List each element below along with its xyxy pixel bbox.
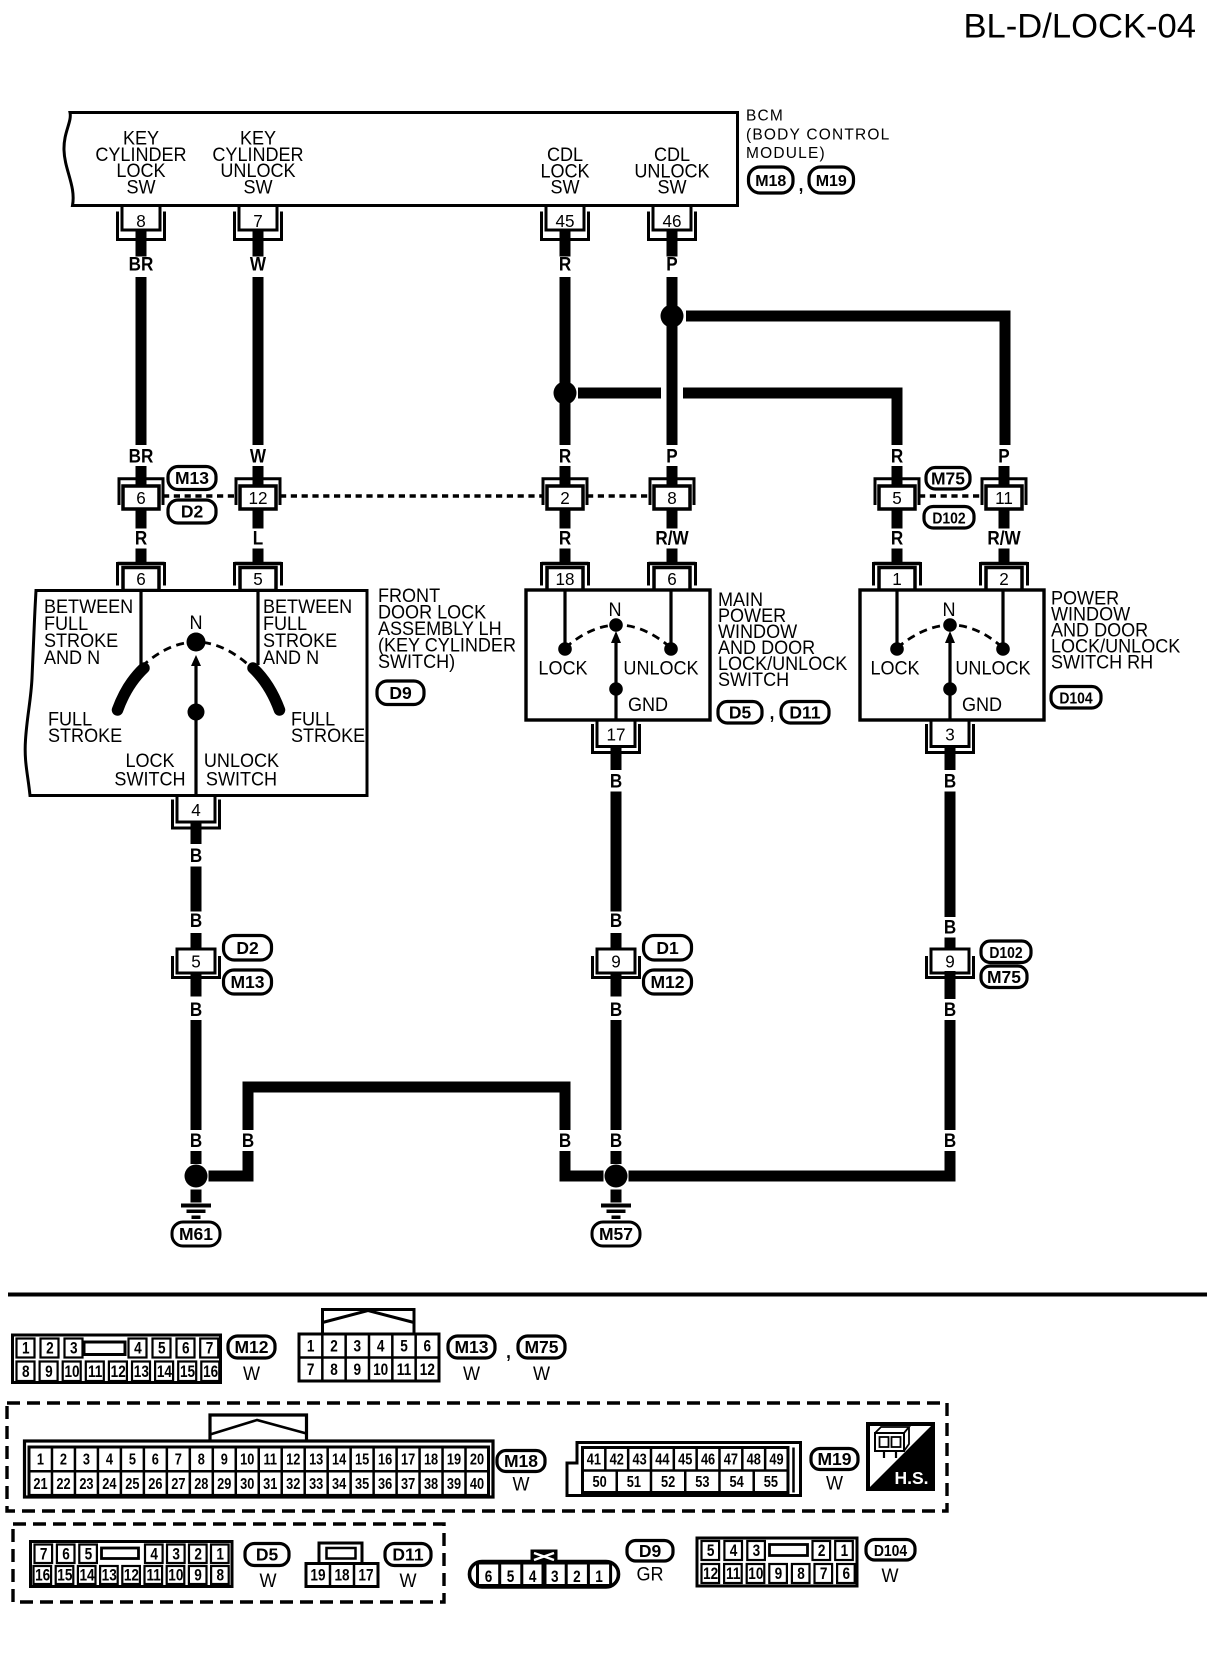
svg-text:W: W [250, 446, 267, 467]
svg-text:13: 13 [309, 1451, 323, 1469]
svg-text:5: 5 [707, 1542, 715, 1561]
svg-text:B: B [944, 999, 956, 1020]
svg-text:M13: M13 [230, 972, 264, 992]
svg-text:4: 4 [191, 800, 201, 821]
svg-text:9: 9 [611, 951, 621, 972]
svg-text:5: 5 [191, 951, 201, 972]
svg-text:D2: D2 [181, 502, 204, 522]
svg-text:32: 32 [286, 1476, 300, 1494]
svg-text:13: 13 [134, 1362, 149, 1381]
svg-text:7: 7 [253, 211, 263, 232]
svg-text:6: 6 [136, 569, 146, 590]
svg-text:51: 51 [627, 1474, 641, 1492]
svg-text:W: W [259, 1570, 277, 1592]
svg-text:20: 20 [470, 1451, 484, 1469]
svg-text:M12: M12 [234, 1337, 268, 1357]
svg-text:6: 6 [667, 569, 677, 590]
svg-text:M75: M75 [931, 468, 965, 488]
svg-text:1: 1 [307, 1337, 315, 1356]
svg-text:SWITCH RH: SWITCH RH [1051, 651, 1153, 673]
svg-text:14: 14 [332, 1451, 346, 1469]
svg-text:2: 2 [330, 1337, 338, 1356]
svg-text:10: 10 [748, 1565, 763, 1584]
svg-text:B: B [190, 910, 202, 931]
svg-text:UNLOCK: UNLOCK [623, 657, 699, 679]
svg-text:D102: D102 [932, 511, 965, 528]
svg-text:B: B [242, 1130, 254, 1151]
svg-text:16: 16 [378, 1451, 392, 1469]
svg-text:B: B [559, 1130, 571, 1151]
svg-text:B: B [190, 999, 202, 1020]
svg-text:38: 38 [424, 1476, 438, 1494]
svg-text:B: B [190, 845, 202, 866]
svg-text:15: 15 [57, 1566, 73, 1585]
svg-text:SWITCH: SWITCH [206, 768, 277, 790]
svg-text:GR: GR [636, 1563, 663, 1585]
svg-text:15: 15 [180, 1362, 196, 1381]
svg-text:54: 54 [729, 1474, 743, 1492]
svg-text:53: 53 [695, 1474, 709, 1492]
svg-text:BCM: BCM [746, 108, 784, 125]
svg-text:12: 12 [248, 488, 267, 509]
svg-text:11: 11 [88, 1362, 103, 1381]
svg-text:4: 4 [150, 1545, 158, 1564]
svg-text:6: 6 [485, 1568, 493, 1587]
svg-text:2: 2 [194, 1545, 202, 1564]
svg-text:B: B [944, 771, 956, 792]
svg-text:M19: M19 [817, 1449, 851, 1469]
svg-text:7: 7 [307, 1360, 315, 1379]
svg-text:R: R [559, 446, 571, 467]
svg-text:30: 30 [240, 1476, 254, 1494]
svg-text:P: P [666, 446, 677, 467]
svg-text:H.S.: H.S. [894, 1468, 928, 1488]
svg-text:B: B [610, 999, 622, 1020]
svg-text:10: 10 [240, 1451, 254, 1469]
svg-text:3: 3 [753, 1542, 761, 1561]
svg-text:12: 12 [703, 1565, 718, 1584]
svg-text:R: R [891, 528, 903, 549]
svg-text:STROKE: STROKE [48, 725, 122, 747]
svg-text:W: W [463, 1363, 481, 1385]
svg-text:N: N [942, 599, 955, 621]
svg-text:2: 2 [999, 569, 1009, 590]
svg-text:SWITCH: SWITCH [114, 768, 185, 790]
svg-text:D5: D5 [729, 702, 752, 722]
svg-text:33: 33 [309, 1476, 323, 1494]
svg-text:3: 3 [945, 724, 955, 745]
svg-text:8: 8 [136, 211, 146, 232]
svg-text:4: 4 [134, 1339, 142, 1358]
svg-text:D2: D2 [236, 938, 259, 958]
svg-text:45: 45 [555, 211, 574, 232]
svg-text:AND N: AND N [263, 647, 319, 669]
svg-text:,: , [506, 1341, 511, 1362]
svg-text:P: P [666, 254, 677, 275]
svg-text:5: 5 [85, 1545, 93, 1564]
svg-text:29: 29 [217, 1476, 231, 1494]
svg-text:SW: SW [550, 176, 580, 198]
svg-text:SW: SW [243, 176, 273, 198]
svg-text:17: 17 [401, 1451, 415, 1469]
svg-text:M18: M18 [755, 173, 786, 190]
svg-text:5: 5 [400, 1337, 408, 1356]
svg-text:15: 15 [355, 1451, 369, 1469]
svg-text:18: 18 [334, 1566, 350, 1585]
svg-text:B: B [944, 917, 956, 938]
svg-text:50: 50 [593, 1474, 607, 1492]
svg-text:6: 6 [182, 1339, 190, 1358]
svg-text:19: 19 [310, 1566, 325, 1585]
svg-text:8: 8 [797, 1565, 805, 1584]
svg-text:55: 55 [764, 1474, 778, 1492]
svg-text:MODULE): MODULE) [746, 145, 826, 162]
svg-text:9: 9 [945, 951, 955, 972]
svg-text:22: 22 [56, 1476, 70, 1494]
svg-text:5: 5 [253, 569, 263, 590]
svg-text:D104: D104 [1059, 691, 1093, 708]
svg-text:48: 48 [747, 1451, 761, 1469]
svg-text:2: 2 [560, 488, 570, 509]
svg-text:18: 18 [555, 569, 574, 590]
svg-text:R: R [891, 446, 903, 467]
svg-text:3: 3 [551, 1568, 559, 1587]
svg-text:W: W [243, 1363, 261, 1385]
svg-text:R: R [559, 254, 571, 275]
svg-text:7: 7 [175, 1451, 182, 1469]
svg-text:4: 4 [106, 1451, 113, 1469]
svg-text:5: 5 [129, 1451, 136, 1469]
svg-text:2: 2 [60, 1451, 67, 1469]
svg-text:D5: D5 [256, 1545, 279, 1565]
svg-text:14: 14 [157, 1362, 173, 1381]
svg-text:8: 8 [330, 1360, 338, 1379]
svg-text:3: 3 [70, 1339, 78, 1358]
svg-text:28: 28 [194, 1476, 208, 1494]
svg-text:8: 8 [216, 1566, 224, 1585]
svg-text:12: 12 [286, 1451, 300, 1469]
svg-text:9: 9 [354, 1360, 362, 1379]
svg-text:4: 4 [730, 1542, 738, 1561]
svg-text:B: B [190, 1130, 202, 1151]
svg-text:R/W: R/W [655, 528, 689, 549]
svg-text:STROKE: STROKE [291, 725, 365, 747]
svg-text:9: 9 [221, 1451, 228, 1469]
svg-text:D9: D9 [639, 1541, 662, 1561]
svg-text:10: 10 [64, 1362, 79, 1381]
svg-text:GND: GND [628, 694, 668, 716]
svg-text:M75: M75 [524, 1337, 558, 1357]
svg-text:GND: GND [962, 694, 1002, 716]
svg-text:M13: M13 [175, 468, 209, 488]
svg-text:1: 1 [37, 1451, 44, 1469]
svg-text:19: 19 [447, 1451, 461, 1469]
svg-text:3: 3 [172, 1545, 180, 1564]
svg-text:13: 13 [102, 1566, 117, 1585]
svg-text:SWITCH: SWITCH [718, 669, 789, 691]
svg-text:49: 49 [769, 1451, 783, 1469]
svg-text:SWITCH): SWITCH) [378, 651, 455, 673]
svg-text:31: 31 [263, 1476, 277, 1494]
svg-text:46: 46 [701, 1451, 715, 1469]
svg-text:D11: D11 [789, 702, 820, 722]
svg-text:M12: M12 [650, 972, 684, 992]
svg-text:46: 46 [662, 211, 681, 232]
svg-text:8: 8 [667, 488, 677, 509]
svg-text:26: 26 [148, 1476, 162, 1494]
svg-text:L: L [253, 528, 263, 549]
svg-text:W: W [533, 1363, 551, 1385]
svg-text:11: 11 [146, 1566, 161, 1585]
svg-text:25: 25 [125, 1476, 139, 1494]
svg-text:7: 7 [206, 1339, 214, 1358]
svg-text:D9: D9 [389, 683, 412, 703]
svg-text:B: B [610, 1130, 622, 1151]
svg-text:UNLOCK: UNLOCK [955, 657, 1031, 679]
svg-text:18: 18 [424, 1451, 438, 1469]
svg-text:39: 39 [447, 1476, 461, 1494]
svg-text:1: 1 [841, 1542, 849, 1561]
svg-text:8: 8 [22, 1362, 30, 1381]
svg-text:W: W [881, 1565, 899, 1587]
svg-text:35: 35 [355, 1476, 369, 1494]
svg-text:1: 1 [22, 1339, 30, 1358]
svg-text:12: 12 [111, 1362, 126, 1381]
svg-text:M19: M19 [816, 173, 847, 190]
svg-text:R: R [559, 528, 571, 549]
svg-text:2: 2 [573, 1568, 581, 1587]
svg-text:W: W [399, 1570, 417, 1592]
svg-text:N: N [608, 599, 621, 621]
svg-text:9: 9 [45, 1362, 53, 1381]
svg-text:1: 1 [892, 569, 902, 590]
svg-text:BL-D/LOCK-04: BL-D/LOCK-04 [963, 8, 1196, 46]
svg-text:23: 23 [79, 1476, 93, 1494]
svg-text:SW: SW [657, 176, 687, 198]
svg-text:34: 34 [332, 1476, 346, 1494]
svg-text:8: 8 [198, 1451, 205, 1469]
svg-text:43: 43 [632, 1451, 646, 1469]
svg-text:16: 16 [203, 1362, 218, 1381]
svg-text:6: 6 [424, 1337, 432, 1356]
svg-text:B: B [610, 771, 622, 792]
svg-text:1: 1 [595, 1568, 603, 1587]
svg-text:21: 21 [33, 1476, 47, 1494]
svg-text:M18: M18 [504, 1451, 538, 1471]
svg-text:D104: D104 [874, 1543, 908, 1560]
svg-text:11: 11 [397, 1360, 412, 1379]
svg-text:44: 44 [655, 1451, 669, 1469]
svg-text:W: W [512, 1473, 530, 1495]
svg-text:11: 11 [726, 1565, 741, 1584]
svg-text:LOCK: LOCK [870, 657, 920, 679]
svg-text:6: 6 [136, 488, 146, 509]
svg-text:W: W [250, 254, 267, 275]
svg-text:36: 36 [378, 1476, 392, 1494]
svg-text:B: B [944, 1130, 956, 1151]
svg-text:B: B [610, 910, 622, 931]
svg-text:27: 27 [171, 1476, 185, 1494]
svg-text:47: 47 [724, 1451, 738, 1469]
svg-text:9: 9 [775, 1565, 783, 1584]
svg-text:2: 2 [46, 1339, 54, 1358]
svg-text:4: 4 [377, 1337, 385, 1356]
svg-text:1: 1 [216, 1545, 224, 1564]
svg-text:12: 12 [420, 1360, 435, 1379]
svg-text:41: 41 [587, 1451, 601, 1469]
svg-text:M13: M13 [454, 1337, 488, 1357]
svg-text:7: 7 [40, 1545, 48, 1564]
svg-text:11: 11 [263, 1451, 277, 1469]
svg-text:11: 11 [995, 488, 1013, 509]
svg-text:42: 42 [610, 1451, 624, 1469]
svg-text:D102: D102 [989, 945, 1022, 962]
svg-text:W: W [826, 1472, 844, 1494]
svg-text:BR: BR [129, 254, 154, 275]
svg-text:7: 7 [820, 1565, 828, 1584]
svg-text:10: 10 [373, 1360, 388, 1379]
svg-text:P: P [998, 446, 1009, 467]
svg-text:2: 2 [818, 1542, 826, 1561]
svg-text:SW: SW [126, 176, 156, 198]
svg-text:N: N [189, 612, 202, 634]
svg-text:14: 14 [79, 1566, 95, 1585]
svg-text:M61: M61 [179, 1224, 213, 1244]
svg-text:6: 6 [152, 1451, 159, 1469]
svg-text:(BODY CONTROL: (BODY CONTROL [746, 127, 891, 144]
svg-text:,: , [770, 702, 775, 723]
svg-text:10: 10 [168, 1566, 183, 1585]
svg-text:,: , [799, 174, 804, 195]
svg-text:M75: M75 [987, 967, 1021, 987]
svg-text:17: 17 [606, 724, 625, 745]
svg-text:M57: M57 [599, 1224, 633, 1244]
svg-text:R/W: R/W [987, 528, 1021, 549]
svg-text:6: 6 [62, 1545, 70, 1564]
svg-text:9: 9 [194, 1566, 202, 1585]
svg-text:5: 5 [158, 1339, 166, 1358]
svg-text:3: 3 [83, 1451, 90, 1469]
svg-text:5: 5 [892, 488, 902, 509]
svg-text:24: 24 [102, 1476, 116, 1494]
svg-text:LOCK: LOCK [538, 657, 588, 679]
svg-text:R: R [135, 528, 147, 549]
svg-text:37: 37 [401, 1476, 415, 1494]
svg-text:3: 3 [354, 1337, 362, 1356]
svg-text:16: 16 [35, 1566, 50, 1585]
svg-text:5: 5 [507, 1568, 515, 1587]
svg-text:D11: D11 [392, 1545, 423, 1565]
svg-text:4: 4 [529, 1568, 537, 1587]
svg-text:40: 40 [470, 1476, 484, 1494]
svg-text:D1: D1 [656, 938, 679, 958]
svg-text:52: 52 [661, 1474, 675, 1492]
svg-text:17: 17 [358, 1566, 373, 1585]
svg-text:12: 12 [124, 1566, 139, 1585]
svg-text:45: 45 [678, 1451, 692, 1469]
svg-text:6: 6 [842, 1565, 850, 1584]
svg-text:BR: BR [129, 446, 154, 467]
svg-text:AND N: AND N [44, 647, 100, 669]
